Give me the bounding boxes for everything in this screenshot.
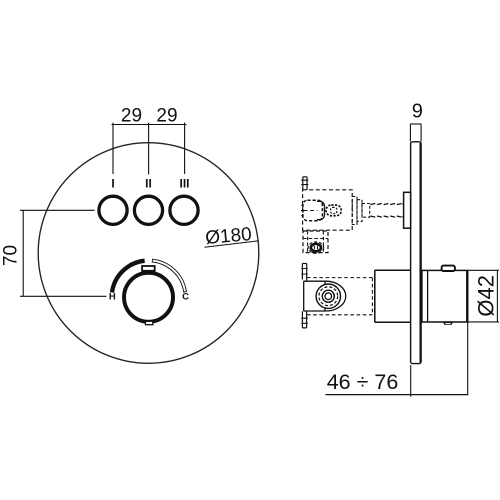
svg-text:C: C (182, 292, 189, 303)
lower valve bracket (304, 281, 327, 311)
lower valve bottom stub thread ticks (301, 318, 308, 323)
svg-text:I: I (111, 177, 114, 191)
top valve adapter step 1 (352, 197, 357, 225)
dimension O42 bottom extension (468, 321, 499, 323)
dimension 70 bottom extension / leader to H (20, 295, 107, 297)
top valve left port (hidden) (303, 200, 323, 220)
dimension 46-76 extension at wall (410, 365, 412, 397)
handle bottom bump (443, 322, 453, 325)
lower valve bracket bell (326, 281, 346, 311)
svg-text:46 ÷ 76: 46 ÷ 76 (327, 370, 399, 394)
knob bottom marker (145, 321, 152, 324)
svg-text:70: 70 (1, 245, 22, 266)
knob thin arc band C side (152, 259, 186, 292)
lower valve cylinder body (375, 270, 411, 322)
top valve bottom outlet bracket inner lines (303, 231, 328, 253)
top valve body (hidden) (303, 190, 353, 230)
dimension 9 line (410, 123, 421, 125)
dimension O42 line (496, 270, 498, 322)
faceplate circle O180 (38, 143, 259, 364)
top valve port centerline (304, 210, 318, 212)
dimension 29/29 line (112, 124, 187, 126)
handle top tab (442, 266, 455, 271)
lower valve hidden body lines (307, 278, 375, 315)
dimension 70 vertical line (22, 210, 24, 296)
button III (170, 196, 198, 224)
svg-text:9: 9 (412, 101, 423, 123)
svg-text:Ø42: Ø42 (474, 275, 499, 317)
dimension 9 extension lines (410, 124, 421, 142)
svg-text:II: II (145, 177, 152, 191)
top valve shaft threaded top edge (370, 204, 403, 205)
lower valve top stub (302, 264, 306, 282)
svg-text:29: 29 (121, 106, 142, 127)
O180 leader line (205, 241, 259, 248)
top valve side port inner (331, 207, 337, 213)
top valve port cup (317, 201, 325, 219)
knob circle (124, 273, 173, 322)
top valve port hose barbs (301, 205, 304, 215)
wall plate right edge heavy line (419, 143, 421, 363)
handle bottom bump inner line (445, 323, 450, 325)
lower valve boss center hole (325, 293, 332, 300)
top valve flange at plate (404, 192, 411, 228)
handle right face heavy edge (466, 271, 468, 322)
svg-text:III: III (179, 177, 189, 191)
dimension 29/29 extension lines (113, 123, 185, 175)
top valve bottom outlet oval ring (311, 244, 321, 252)
top valve bottom outlet slot (314, 246, 317, 250)
top valve inlet stub (303, 177, 307, 190)
top valve shaft threaded bottom edge (370, 216, 403, 217)
lower valve boss circle (316, 284, 340, 308)
button II (134, 196, 162, 224)
svg-text:Ø180: Ø180 (204, 224, 252, 249)
svg-text:29: 29 (156, 106, 177, 127)
lower valve boss dashed circle (319, 287, 338, 306)
button I (99, 196, 127, 224)
dimension 70 top extension (20, 209, 95, 211)
top valve adapter step 2 (357, 200, 362, 222)
dimension 46-76 line (326, 394, 469, 396)
dimension O42 top extension (468, 269, 499, 271)
knob top marker (142, 266, 155, 271)
lower valve bottom stub (302, 311, 306, 328)
knob thick arc H side (112, 261, 145, 293)
handle body (422, 270, 468, 322)
top valve bottom outlet bracket (hidden) (303, 231, 328, 253)
handle base line (427, 270, 429, 322)
top valve side port oval (326, 205, 341, 216)
top valve adapter step 3 (362, 204, 370, 218)
top valve bottom outlet oval outer (308, 242, 324, 253)
dimension 46-76 extension at handle (467, 322, 469, 394)
svg-text:H: H (109, 292, 116, 303)
lower valve top stub thread ticks (301, 269, 308, 275)
wall plate (411, 142, 422, 364)
top valve inlet stub thread ticks (301, 180, 308, 184)
lower valve boss inner circle (322, 290, 334, 302)
